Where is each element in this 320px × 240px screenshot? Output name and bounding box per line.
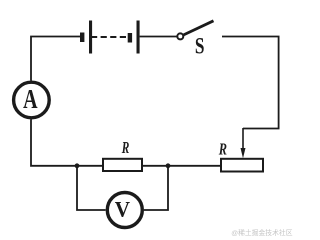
rheostat R body [221, 159, 263, 172]
switch S pivot circle [177, 33, 183, 39]
battery B1 left cell negative plate (short thick) [80, 33, 84, 43]
svg-text:V: V [115, 197, 131, 222]
svg-text:R: R [218, 141, 227, 159]
voltmeter V circle [107, 193, 142, 228]
switch S blade [184, 21, 214, 35]
wire left junction to bottom-left corner and up to ammeter [31, 120, 77, 166]
wire battery to switch [140, 36, 177, 38]
wire resistor to left junction [77, 165, 103, 167]
ammeter A circle [14, 82, 50, 118]
svg-text:R: R [121, 139, 129, 158]
battery B1 right cell negative plate (short thick) [128, 33, 132, 43]
resistor R body [103, 159, 142, 171]
svg-text:A: A [23, 85, 37, 115]
rheostat wiper arrow shaft [242, 128, 244, 150]
wire voltmeter branch left: junction down and right [77, 166, 106, 210]
battery B1 left cell positive plate (long) [89, 21, 92, 54]
wire top-left: battery to left corner [31, 37, 81, 81]
rheostat wiper arrowhead [241, 148, 246, 158]
svg-text:S: S [195, 34, 205, 59]
node left junction [75, 163, 80, 168]
svg-text:@稀土掘金技术社区: @稀土掘金技术社区 [231, 228, 292, 237]
battery B1 right cell positive plate (long) [137, 21, 140, 54]
wire right junction to resistor [142, 165, 168, 167]
node right junction [166, 163, 171, 168]
wire voltmeter branch right: to right junction [144, 166, 168, 210]
wire switch to top-right corner and down right side [222, 37, 279, 129]
battery dashed link between cells [91, 36, 128, 38]
wire rheostat to right junction [168, 165, 221, 167]
